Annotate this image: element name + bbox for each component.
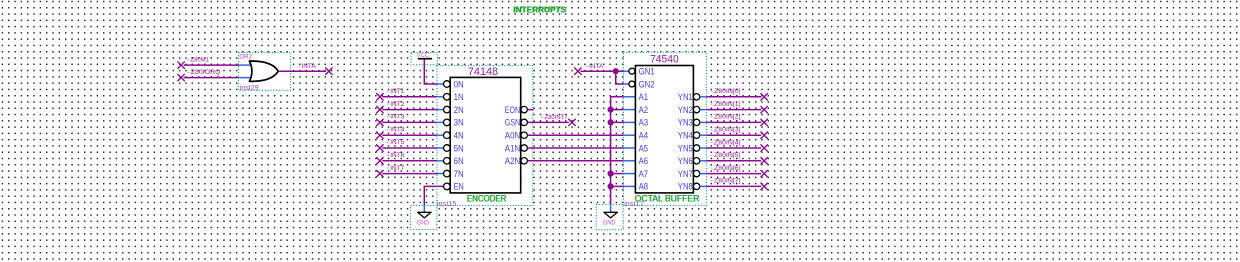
net label Z80IN[3] [710, 127, 740, 134]
selection box VCC [411, 53, 437, 65]
net label Z80IN[1] [710, 101, 740, 108]
net label Z80IN[4] [710, 139, 740, 146]
net label INTA 2 [585, 63, 603, 70]
svg-text:Z80IN[1]: Z80IN[1] [714, 101, 741, 108]
svg-text:YN6: YN6 [678, 156, 693, 166]
pin stub YN6 [700, 160, 707, 162]
svg-text:YN2: YN2 [678, 105, 693, 115]
wire GND net vertical [611, 97, 624, 205]
pin stub YN1 [700, 96, 707, 98]
wire A0N to 74540 A4 [527, 134, 623, 136]
ground symbol GND2 [604, 212, 618, 218]
selection box OR2 [238, 52, 290, 90]
svg-text:A3: A3 [639, 118, 649, 128]
symbol name ENCODER [466, 194, 507, 204]
svg-text:A4: A4 [639, 131, 649, 141]
svg-text:INT3: INT3 [390, 114, 405, 121]
dangling net marker Z80IN[6] [761, 170, 768, 177]
symbol name OCTAL BUFFER [634, 193, 700, 203]
svg-text:GND: GND [417, 220, 430, 226]
net label INT1 [387, 88, 405, 95]
svg-text:EN: EN [454, 182, 464, 192]
IC 74540 body [635, 66, 693, 193]
pin bubble GN2 [629, 81, 635, 87]
wire Z80IORQ to OR gate [184, 77, 239, 79]
pin bubble GSN [521, 119, 527, 125]
pin bubble 1N [444, 94, 451, 101]
wire INTA branch to GN2 [616, 71, 624, 84]
title INTERRUPTS [513, 5, 567, 15]
svg-text:GN2: GN2 [639, 79, 655, 89]
net label Z80IN[6] [710, 165, 740, 172]
wire GND branch to A3 [611, 121, 624, 123]
svg-text:Z80INT7: Z80INT7 [545, 114, 568, 121]
svg-text:7N: 7N [454, 169, 464, 179]
input pin marker INT1 [377, 94, 384, 101]
pin stub YN4 [700, 134, 707, 136]
dangling net marker INTA 2 [575, 68, 582, 75]
dangling net marker Z80IN[2] [761, 119, 768, 126]
svg-text:YN7: YN7 [678, 169, 693, 179]
pin stub A6 [623, 160, 635, 162]
wire GND branch to A2 [611, 109, 624, 111]
svg-text:YN1: YN1 [678, 92, 693, 102]
wire INT3 to pin 3N [382, 121, 437, 123]
svg-text:Z80M1: Z80M1 [191, 57, 209, 64]
pin bubble EON [521, 106, 527, 112]
svg-text:Z80IN[7]: Z80IN[7] [714, 178, 741, 185]
pin stub A4 [623, 134, 635, 136]
svg-text:INTA: INTA [301, 63, 316, 70]
wire A1N to 74540 A5 [527, 147, 623, 149]
svg-text:0N: 0N [454, 79, 464, 89]
ground symbol GND1 [418, 212, 432, 218]
svg-text:INTA: INTA [589, 63, 604, 70]
selection box 74148 [437, 66, 533, 206]
svg-text:INT2: INT2 [390, 101, 405, 108]
svg-text:A2: A2 [639, 105, 649, 115]
pin stub GN1 [623, 70, 628, 72]
pin stub A3 [623, 121, 635, 123]
dangling net marker INTA [326, 68, 333, 75]
input pin marker INT2 [377, 106, 384, 113]
svg-text:74148: 74148 [468, 66, 498, 78]
pin stub EN gnd [423, 205, 425, 212]
pin stub A1 [623, 96, 635, 98]
svg-text:Z80IN[3]: Z80IN[3] [714, 127, 741, 134]
svg-text:3N: 3N [454, 118, 464, 128]
svg-text:A6: A6 [639, 156, 649, 166]
pin stub 1N [437, 96, 444, 98]
pin bubble 3N [444, 119, 451, 126]
pin stub 4N [437, 134, 444, 136]
svg-text:A0N: A0N [505, 131, 520, 141]
svg-text:INT5: INT5 [390, 139, 405, 146]
pin stub OR2 input 1 [239, 64, 254, 66]
or-gate OR2 [249, 61, 278, 81]
svg-text:GN1: GN1 [639, 67, 655, 77]
wire A2N to 74540 A6 [527, 160, 623, 162]
svg-text:74540: 74540 [650, 53, 679, 65]
dangling net marker Z80IN[5] [761, 158, 768, 165]
wire Z80M1 to OR gate [184, 64, 239, 66]
pin bubble 0N [444, 81, 451, 88]
pin stub 7N [437, 173, 444, 175]
svg-text:INT1: INT1 [390, 88, 405, 95]
wire INT1 to pin 1N [382, 96, 437, 98]
net label Z80IN[7] [710, 178, 740, 185]
selection box 74540 [623, 52, 706, 205]
IC 74148 body [450, 77, 521, 192]
net label INT6 [387, 152, 405, 159]
svg-text:INTERRUPTS: INTERRUPTS [513, 5, 566, 15]
input pin marker INT3 [377, 119, 384, 126]
pin stub YN7 [700, 173, 707, 175]
pin stub GND2 top [610, 205, 612, 213]
pin bubble YN7 [693, 170, 699, 176]
pin bubble EN [444, 183, 451, 190]
svg-text:OCTAL BUFFER: OCTAL BUFFER [635, 193, 700, 203]
pin bubble YN2 [693, 106, 699, 112]
wire INT5 to pin 5N [382, 147, 437, 149]
input pin marker INT6 [377, 158, 384, 165]
pin bubble GN1 [629, 68, 635, 74]
dangling net marker Z80IN[7] [761, 183, 768, 190]
svg-text:A8: A8 [639, 182, 649, 192]
svg-text:Z80IN[6]: Z80IN[6] [714, 165, 741, 172]
svg-text:A2N: A2N [505, 156, 520, 166]
pin stub YN2 [700, 109, 707, 111]
wire pin EN to GND [424, 186, 443, 205]
pin bubble YN3 [693, 119, 699, 125]
wire VCC to pin 0N [424, 60, 437, 85]
pin bubble YN1 [693, 94, 699, 100]
svg-text:5N: 5N [454, 143, 464, 153]
pin stub 5N [437, 147, 444, 149]
svg-text:2N: 2N [454, 105, 464, 115]
input pin marker INT4 [377, 132, 384, 139]
wire YN4 to Z80IN[3] [706, 134, 761, 136]
dangling net marker Z80IN[4] [761, 145, 768, 152]
wire GSN to Z80INT7 [527, 121, 568, 123]
pin bubble 2N [444, 106, 451, 113]
svg-text:A7: A7 [639, 169, 649, 179]
dangling net marker Z80IN[0] [761, 94, 768, 101]
svg-text:GND: GND [603, 220, 616, 226]
selection box GND2 [596, 205, 623, 230]
wire YN5 to Z80IN[4] [706, 147, 761, 149]
junction GND/A8 [608, 183, 614, 189]
junction GND/A3 [608, 119, 614, 125]
wire GND branch to A7 [611, 173, 624, 175]
svg-text:4N: 4N [454, 131, 464, 141]
junction INTA/GN2 [613, 68, 619, 74]
wire INT2 to pin 2N [382, 109, 437, 111]
wire YN2 to Z80IN[1] [706, 109, 761, 111]
net label Z80IN[0] [710, 88, 740, 95]
pin bubble YN4 [693, 132, 699, 138]
dangling net marker Z80IN[1] [761, 106, 768, 113]
pin stub A5 [623, 147, 635, 149]
svg-text:inst15: inst15 [437, 201, 457, 208]
svg-text:YN3: YN3 [678, 118, 693, 128]
svg-text:EON: EON [505, 105, 520, 115]
input pin marker Z80M1 [178, 62, 185, 69]
dangling net marker Z80IN[3] [761, 132, 768, 139]
pin bubble 5N [444, 145, 451, 152]
svg-text:A1: A1 [639, 92, 649, 102]
wire YN8 to Z80IN[7] [706, 185, 761, 187]
wire YN3 to Z80IN[2] [706, 121, 761, 123]
dangling net marker Z80INT7 [569, 119, 576, 126]
net label INTA [298, 63, 316, 70]
wire INT4 to pin 4N [382, 134, 437, 136]
svg-text:1N: 1N [454, 92, 464, 102]
svg-text:Z80IN[4]: Z80IN[4] [714, 139, 741, 146]
wire INTA to GN1 [580, 70, 623, 72]
power symbol VCC [417, 52, 432, 59]
svg-text:INT7: INT7 [390, 165, 405, 172]
svg-text:inst29: inst29 [240, 85, 259, 92]
net label Z80IN[5] [710, 152, 740, 159]
pin stub 0N [437, 83, 444, 85]
net label INT5 [387, 139, 405, 146]
svg-text:Z80IN[5]: Z80IN[5] [714, 152, 741, 159]
pin bubble A0N [521, 132, 527, 138]
pin bubble 4N [444, 132, 451, 139]
net label Z80IORQ [187, 69, 220, 76]
net label INT4 [387, 126, 405, 133]
svg-text:Z80IN[0]: Z80IN[0] [714, 88, 741, 95]
wire YN6 to Z80IN[5] [706, 160, 761, 162]
pin stub 6N [437, 160, 444, 162]
pin stub A8 [623, 185, 635, 187]
input pin marker INT5 [377, 145, 384, 152]
net label Z80INT7 [541, 114, 568, 121]
pin bubble 6N [444, 158, 451, 165]
pin stub YN8 [700, 185, 707, 187]
svg-text:GSN: GSN [505, 118, 520, 128]
net label Z80IN[2] [710, 114, 740, 121]
svg-text:Z80IORQ: Z80IORQ [191, 69, 221, 76]
wire YN7 to Z80IN[6] [706, 173, 761, 175]
svg-text:Z80IN[2]: Z80IN[2] [714, 114, 741, 121]
wire GND branch to A8 [611, 185, 624, 187]
svg-text:ENCODER: ENCODER [467, 194, 507, 204]
pin bubble A1N [521, 145, 527, 151]
pin stub GN2 [623, 83, 628, 85]
pin stub 3N [437, 121, 444, 123]
pin stub YN5 [700, 147, 707, 149]
wire stub EON [527, 109, 533, 111]
junction GND/A7 [608, 171, 614, 177]
svg-text:OR2: OR2 [239, 53, 252, 60]
pin stub A7 [623, 173, 635, 175]
pin stub 2N [437, 109, 444, 111]
net label INT2 [387, 101, 405, 108]
selection box GND1 [411, 205, 437, 229]
svg-text:YN8: YN8 [678, 182, 693, 192]
pin stub OR2 input 2 [239, 77, 254, 79]
svg-text:YN5: YN5 [678, 143, 693, 153]
input pin marker Z80IORQ [178, 74, 185, 81]
pin bubble 7N [444, 170, 451, 177]
svg-text:INT6: INT6 [390, 152, 405, 159]
wire INT7 to pin 7N [382, 173, 437, 175]
pin bubble A2N [521, 158, 527, 164]
svg-text:YN4: YN4 [678, 131, 693, 141]
input pin marker INT7 [377, 170, 384, 177]
junction GND/A2 [608, 107, 614, 113]
pin stub A2 [623, 109, 635, 111]
wire YN1 to Z80IN[0] [706, 96, 761, 98]
svg-text:6N: 6N [454, 156, 464, 166]
wire INT6 to pin 6N [382, 160, 437, 162]
svg-text:A5: A5 [639, 143, 649, 153]
wire OR2 output INTA [278, 70, 326, 72]
pin bubble YN6 [693, 158, 699, 164]
net label Z80M1 [187, 57, 209, 64]
svg-text:INT4: INT4 [390, 126, 405, 133]
pin bubble YN8 [693, 183, 699, 189]
pin bubble YN5 [693, 145, 699, 151]
net label INT7 [387, 165, 405, 172]
net label INT3 [387, 114, 405, 121]
svg-text:A1N: A1N [505, 143, 520, 153]
pin stub YN3 [700, 121, 707, 123]
